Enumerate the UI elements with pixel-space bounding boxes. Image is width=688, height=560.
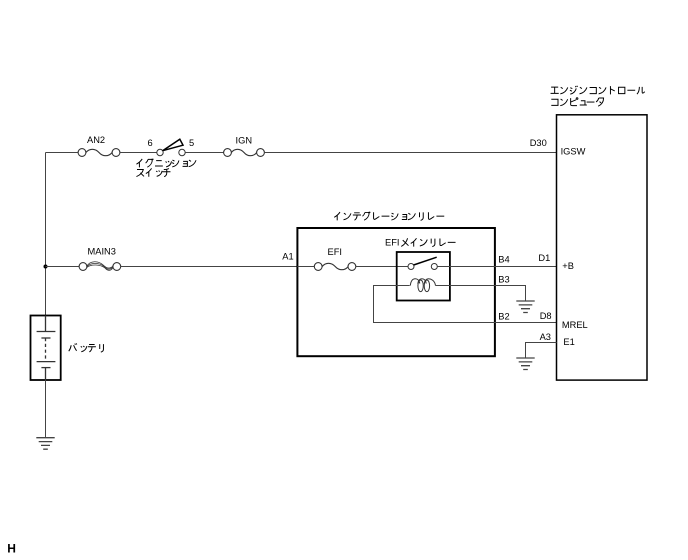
svg-text:B4: B4 (498, 254, 509, 264)
label スイッチ (136, 168, 170, 176)
EFI main relay box (397, 252, 450, 301)
ECU box (557, 115, 648, 380)
svg-text:H: H (7, 542, 16, 556)
wire: coil left lead jog to B2/D8 (MREL) (374, 286, 557, 323)
svg-text:E1: E1 (563, 337, 574, 347)
svg-text:EFI: EFI (328, 247, 342, 257)
wire: fuse IGN to ECU pin D30 (264, 152, 556, 154)
integration relay box (297, 228, 495, 356)
fusible link MAIN3 (79, 262, 121, 271)
fuse EFI (314, 263, 355, 271)
svg-text:MREL: MREL (562, 320, 588, 330)
battery box (31, 316, 61, 381)
svg-text:6: 6 (148, 138, 153, 148)
svg-text:MAIN3: MAIN3 (88, 247, 116, 257)
svg-text:EFI: EFI (385, 237, 399, 247)
wire: switch to fuse IGN (185, 152, 224, 154)
svg-text:IGSW: IGSW (561, 146, 586, 156)
wire: top row from bus to fuse AN2 (46, 152, 79, 154)
svg-text:AN2: AN2 (87, 135, 105, 145)
wire: bus to fusible link MAIN3 (46, 266, 80, 268)
svg-text:D30: D30 (530, 138, 547, 148)
ground at E1 (516, 358, 534, 370)
label バッテリ (69, 343, 104, 352)
wire: A1 to fuse EFI (297, 266, 314, 268)
wire: ECU pin E1 to ground (526, 343, 557, 359)
ignition switch lever (163, 139, 183, 151)
label エンジンコントロール (551, 86, 645, 95)
svg-text:+B: +B (562, 261, 574, 271)
svg-text:IGN: IGN (236, 136, 253, 146)
svg-text:B2: B2 (498, 312, 509, 322)
relay contact (switch) (408, 264, 437, 270)
wire: fuse EFI to relay contact (356, 266, 408, 268)
ignition switch terminals 6 and 5 (157, 149, 185, 155)
wire: coil right lead to B3 ground branch (436, 286, 526, 302)
svg-text:A1: A1 (282, 252, 293, 262)
wire: relay contact to ECU pin D1 (+B) (437, 266, 556, 268)
svg-text:D8: D8 (540, 311, 552, 321)
fuse IGN (224, 149, 265, 157)
svg-text:5: 5 (189, 138, 194, 148)
label イグニッション (136, 159, 196, 168)
svg-text:A3: A3 (540, 332, 551, 342)
wire: fuse AN2 to ignition switch (120, 152, 157, 154)
relay coil L (410, 279, 435, 292)
battery cells (37, 316, 56, 381)
ground at B3 (516, 301, 534, 313)
wire: MAIN3 to integration relay pin A1 (121, 266, 298, 268)
label インテグレーションリレー (334, 212, 444, 221)
junction dot at bus and MAIN3 row (44, 265, 48, 269)
ground at battery (36, 438, 54, 450)
fuse AN2 (78, 149, 120, 157)
wire: battery negative to chassis ground (45, 380, 47, 438)
wire: left vertical bus from top row to battery (45, 153, 47, 316)
svg-text:D1: D1 (538, 253, 550, 263)
label コンピュータ (551, 98, 603, 106)
svg-text:B3: B3 (498, 274, 509, 284)
